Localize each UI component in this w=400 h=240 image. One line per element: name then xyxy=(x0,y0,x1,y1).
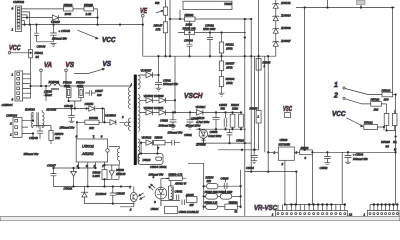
svg-text:A5252: A5252 xyxy=(81,151,94,156)
svg-text:VSCH: VSCH xyxy=(184,91,203,100)
zener ZD5007 xyxy=(272,42,279,47)
diode D5009 xyxy=(109,165,114,179)
svg-text:CN5004: CN5004 xyxy=(2,103,13,107)
ground xyxy=(219,93,225,96)
resistor C5054r xyxy=(230,112,235,129)
wire net y149.8 xyxy=(218,149,259,151)
svg-text:D5010: D5010 xyxy=(143,158,151,162)
svg-text:100: 100 xyxy=(384,98,389,102)
diode VD5014 xyxy=(197,110,242,115)
svg-text:150mmf 25v: 150mmf 25v xyxy=(163,82,178,86)
svg-text:R5023: R5023 xyxy=(64,3,73,7)
wire zener bus xyxy=(275,0,277,56)
svg-text:97k: 97k xyxy=(156,28,161,32)
svg-text:U5004: U5004 xyxy=(151,207,159,211)
wire header bracket left xyxy=(278,205,346,211)
svg-text:150k: 150k xyxy=(226,81,233,85)
wire bus x170 xyxy=(169,0,171,56)
svg-text:ZD5007: ZD5007 xyxy=(280,39,291,43)
switch contact 2 xyxy=(343,97,371,104)
svg-text:R5100: R5100 xyxy=(301,146,309,150)
svg-text:C5051: C5051 xyxy=(175,189,183,193)
svg-text:KA7805R: KA7805R xyxy=(279,143,291,147)
bottom gray strip xyxy=(0,217,400,222)
svg-text:ZD5004: ZD5004 xyxy=(95,192,107,196)
svg-text:R5065: R5065 xyxy=(263,61,271,65)
svg-text:KD5002: KD5002 xyxy=(46,107,56,111)
optocoupler U5004 phototransistor xyxy=(120,187,137,207)
resistor R5028 xyxy=(84,7,94,11)
svg-text:C5035: C5035 xyxy=(116,191,125,195)
svg-text:C5049: C5049 xyxy=(64,104,73,108)
svg-text:R5065: R5065 xyxy=(250,107,258,111)
capacitor C5051 xyxy=(176,195,179,201)
svg-text:200k: 200k xyxy=(76,84,83,88)
resistor R5111 xyxy=(219,33,223,62)
wire U5002 pin8 xyxy=(102,109,104,123)
wire net DC minus rail xyxy=(53,109,105,123)
svg-text:ZD5008: ZD5008 xyxy=(280,14,291,18)
capacitor C5053 xyxy=(44,86,49,101)
svg-text:1N4148: 1N4148 xyxy=(116,172,126,176)
svg-text:10k: 10k xyxy=(55,136,60,140)
svg-text:C5052: C5052 xyxy=(320,166,328,170)
resistor R5096b xyxy=(218,194,241,200)
svg-text:R5090: R5090 xyxy=(185,13,194,17)
zener ZD5009 xyxy=(272,29,279,34)
wire net y112 column xyxy=(213,112,220,129)
svg-text:R5098 2.2k: R5098 2.2k xyxy=(205,201,219,204)
svg-text:C5037: C5037 xyxy=(47,163,56,167)
wire CN5004 pin nets xyxy=(23,74,31,98)
svg-text:ZD5141: ZD5141 xyxy=(280,1,291,5)
resistor R5031 xyxy=(387,110,398,131)
svg-text:R5024: R5024 xyxy=(382,88,391,92)
connector CN5004 xyxy=(15,71,23,101)
wire U5002 pin7 xyxy=(93,135,95,139)
svg-text:+ C5060: + C5060 xyxy=(353,152,364,156)
wire net y168 xyxy=(54,167,96,169)
transformer primary winding xyxy=(128,86,130,109)
svg-text:C5057: C5057 xyxy=(95,89,103,93)
svg-text:C5061: C5061 xyxy=(163,78,171,82)
diode VD5506 xyxy=(110,120,116,125)
wire net VE xyxy=(143,55,276,57)
svg-text:150mmf 10v: 150mmf 10v xyxy=(24,152,39,156)
svg-text:3W: 3W xyxy=(190,203,194,207)
capacitor C5052 xyxy=(324,152,331,164)
capacitor C5046a xyxy=(34,25,39,42)
capacitor C5031 xyxy=(172,140,180,146)
resistor R5104 xyxy=(239,112,244,129)
svg-text:D5009: D5009 xyxy=(116,168,124,172)
svg-text:2: 2 xyxy=(129,207,132,211)
svg-text:2: 2 xyxy=(281,162,284,166)
optocoupler U5004 LED xyxy=(155,179,167,206)
svg-text:C5082: C5082 xyxy=(205,24,214,28)
svg-text:100mmf 25v: 100mmf 25v xyxy=(353,157,368,161)
resistor R5090b xyxy=(166,176,187,180)
svg-text:R5104: R5104 xyxy=(231,103,239,107)
fusible resistor F5054 xyxy=(69,86,84,109)
resistor R5082 xyxy=(204,194,218,200)
svg-text:CN5006: CN5006 xyxy=(6,114,17,118)
fuse F5001 xyxy=(29,50,33,87)
svg-text:CN5002: CN5002 xyxy=(13,0,24,4)
capacitor C5083 xyxy=(187,35,193,57)
node VE terminal xyxy=(142,15,145,57)
svg-text:ZD5009: ZD5009 xyxy=(280,26,291,30)
svg-text:R1: R1 xyxy=(393,140,397,144)
svg-text:2.2k: 2.2k xyxy=(85,12,92,16)
svg-text:220k: 220k xyxy=(185,23,193,27)
svg-text:1mmf: 1mmf xyxy=(45,93,52,97)
svg-text:VD5010 VD5011: VD5010 VD5011 xyxy=(144,106,164,110)
svg-text:VCC: VCC xyxy=(102,37,116,44)
zener ZD5004 xyxy=(81,187,88,204)
diode VD5011 xyxy=(159,110,197,115)
resistor R5090 xyxy=(185,17,196,31)
svg-text:100mmf 35v: 100mmf 35v xyxy=(168,130,183,134)
resistor R5065 xyxy=(256,104,261,150)
svg-text:VE: VE xyxy=(140,6,148,15)
svg-text:VD5506: VD5506 xyxy=(105,113,116,117)
resistor R5024 xyxy=(382,92,396,204)
svg-text:VD5057: VD5057 xyxy=(141,68,152,72)
svg-text:R5022: R5022 xyxy=(371,98,380,102)
svg-text:VCC: VCC xyxy=(9,43,21,52)
svg-text:VD5012: VD5012 xyxy=(142,136,152,140)
svg-text:KD5008: KD5008 xyxy=(25,107,35,111)
transformer primary lower winding xyxy=(129,118,131,131)
svg-text:C5054: C5054 xyxy=(219,103,227,107)
IC U5002 xyxy=(76,139,109,162)
diode VD5010 xyxy=(140,110,159,115)
wire vertical to fuse xyxy=(30,25,32,50)
wire net y19 xyxy=(170,18,251,20)
svg-text:C5053: C5053 xyxy=(44,90,52,94)
diode D5054 xyxy=(89,106,95,111)
wire feed verticals xyxy=(296,152,342,204)
resistor R5021 xyxy=(364,124,384,130)
svg-text:ZD5015: ZD5015 xyxy=(195,142,206,146)
capacitor C5064 xyxy=(251,150,258,164)
transformer box T5005 xyxy=(180,1,232,19)
transformer secondary winding S1 xyxy=(138,75,140,89)
zener ZD5008 xyxy=(272,16,279,21)
wire top right rail xyxy=(296,0,395,150)
choke BD5001 xyxy=(50,84,60,90)
wire net y129.2 xyxy=(196,128,246,130)
resistor R5025 xyxy=(384,114,389,131)
wire VR block left rail xyxy=(188,163,204,210)
svg-text:22k: 22k xyxy=(206,179,212,183)
svg-text:A5165: A5165 xyxy=(185,193,194,197)
svg-text:VSC: VSC xyxy=(283,104,292,113)
switch contact 1 xyxy=(343,87,382,95)
resistor R5054 xyxy=(204,183,241,189)
svg-text:C5129: C5129 xyxy=(197,116,205,120)
wire bus verticals xyxy=(245,0,268,172)
connector header J2 xyxy=(276,211,348,217)
capacitor C5049 xyxy=(68,109,74,123)
svg-text:D5021: D5021 xyxy=(64,186,73,190)
transformer T5006 winding box xyxy=(169,179,174,201)
svg-text:54: 54 xyxy=(36,55,40,59)
wire filter bottom net xyxy=(33,125,51,131)
svg-text:1: 1 xyxy=(334,82,338,89)
zener ZD5015 xyxy=(201,131,206,144)
potentiometer VR5002 xyxy=(225,202,241,210)
inductor box D5010 xyxy=(138,143,163,165)
svg-text:D5054: D5054 xyxy=(85,102,94,106)
resistor R5053 xyxy=(85,120,99,124)
resistor R5165 xyxy=(186,196,197,202)
svg-text:150k: 150k xyxy=(226,47,233,51)
svg-text:U5019: U5019 xyxy=(51,20,60,24)
svg-text:C5046: C5046 xyxy=(37,45,46,49)
svg-text:C5031: C5031 xyxy=(184,133,192,137)
wire CN5006 nets xyxy=(22,112,33,140)
transformer T5001 core xyxy=(134,75,137,166)
svg-text:C5004 C5031: C5004 C5031 xyxy=(150,165,167,169)
node VA terminal xyxy=(40,69,43,86)
svg-text:+ C5040: + C5040 xyxy=(59,29,71,33)
wire VS jumper xyxy=(74,68,104,73)
resistor R5096 xyxy=(219,77,223,94)
transformer aux winding xyxy=(109,147,119,166)
wire net VA rail xyxy=(31,85,131,87)
svg-text:VD5014: VD5014 xyxy=(196,105,206,109)
wire vertical x175 xyxy=(174,56,176,112)
svg-text:150mmf 20v: 150mmf 20v xyxy=(60,126,75,130)
ground xyxy=(51,43,57,46)
svg-text:R5021: R5021 xyxy=(364,120,373,124)
svg-text:R5054: R5054 xyxy=(206,175,214,179)
component top edge part xyxy=(357,1,366,5)
svg-text:R5038: R5038 xyxy=(93,171,101,175)
potentiometer 50k xyxy=(156,0,168,22)
diode D5019 xyxy=(52,15,58,20)
resistor R5057 xyxy=(219,61,223,77)
IC U5006 xyxy=(165,206,178,213)
diode VD5009 xyxy=(159,98,175,103)
wire net y186.5 xyxy=(54,186,132,188)
svg-text:150k 265v: 150k 265v xyxy=(203,27,216,31)
svg-text:C5064: C5064 xyxy=(246,166,254,170)
wire VR block right rail xyxy=(240,170,242,209)
capacitor C5042 xyxy=(37,131,43,139)
svg-text:C5042: C5042 xyxy=(29,136,38,140)
svg-text:C5083: C5083 xyxy=(184,39,193,43)
wire net y165 xyxy=(105,165,120,179)
optocoupler light arrows xyxy=(139,193,145,200)
resistor R5100 xyxy=(300,150,396,155)
capacitor C5060 xyxy=(344,152,351,163)
resistor R5022 xyxy=(371,102,387,114)
fusible resistor F5003 xyxy=(66,86,71,101)
svg-text:3n9: 3n9 xyxy=(97,93,102,97)
wire net y143 xyxy=(197,142,251,144)
wire U5002 pin6 xyxy=(76,122,78,139)
svg-text:47mmf 200v: 47mmf 200v xyxy=(186,123,201,127)
diode VD5012 xyxy=(140,140,154,145)
svg-text:C5023: C5023 xyxy=(236,139,244,143)
wire U5002 bottom pins xyxy=(79,162,105,187)
capacitor C5036 xyxy=(224,180,227,193)
svg-text:1k2: 1k2 xyxy=(374,107,379,111)
svg-text:12: 12 xyxy=(349,212,353,216)
capacitor C5040 xyxy=(37,25,57,42)
svg-text:VS: VS xyxy=(103,61,112,68)
wire VCC pointer xyxy=(78,30,99,39)
svg-text:U5002: U5002 xyxy=(82,144,95,149)
IC U5009 xyxy=(268,147,300,205)
svg-text:U5009: U5009 xyxy=(280,138,288,142)
svg-text:T5005: T5005 xyxy=(224,2,232,6)
wire net y203.6 xyxy=(85,203,135,205)
svg-text:VR5002: VR5002 xyxy=(229,201,239,204)
wire net R5053 row xyxy=(77,121,125,123)
svg-text:C5036: C5036 xyxy=(221,177,229,181)
node VCC terminal xyxy=(8,52,30,55)
capacitor C5082 xyxy=(207,33,213,57)
svg-text:R5082 200k R5096 220k: R5082 200k R5096 220k xyxy=(205,191,233,194)
svg-text:2: 2 xyxy=(9,122,12,126)
node VS terminal xyxy=(65,69,68,86)
svg-text:4.7mf 200v: 4.7mf 200v xyxy=(196,120,210,124)
resistor R5023 xyxy=(64,7,74,11)
svg-text:0.39R: 0.39R xyxy=(93,174,100,178)
terminal VSC xyxy=(285,113,291,118)
resistor R5052 xyxy=(185,30,195,34)
svg-text:220mmf 25v: 220mmf 25v xyxy=(51,37,67,41)
capacitor C5122 xyxy=(224,112,227,129)
line filter KD5008 KD5032 xyxy=(31,110,44,128)
svg-text:50k: 50k xyxy=(155,1,160,5)
svg-text:R5033: R5033 xyxy=(155,136,163,140)
svg-text:100k: 100k xyxy=(65,12,72,16)
transformer secondary winding S2 xyxy=(138,95,140,132)
capacitor C5023 xyxy=(227,129,233,143)
svg-text:2: 2 xyxy=(93,164,96,168)
diode VD5057 xyxy=(140,56,159,82)
transformer secondary winding S3 xyxy=(138,139,140,158)
capacitor C5035 xyxy=(110,187,116,204)
wire header bracket right xyxy=(370,205,397,211)
resistor R5033 xyxy=(154,141,172,145)
svg-text:C5050: C5050 xyxy=(210,130,218,134)
svg-text:VR-VSC: VR-VSC xyxy=(254,205,278,212)
connector CN5006 xyxy=(13,118,22,138)
svg-text:U5006 KA431AZ: U5006 KA431AZ xyxy=(179,210,200,214)
varistor C5050 xyxy=(199,129,208,143)
LED light arrows xyxy=(149,184,155,190)
wire opto nets xyxy=(161,179,180,206)
connector CN5002 xyxy=(16,6,22,32)
capacitor C5028 xyxy=(170,112,177,129)
svg-text:100mmf 35v: 100mmf 35v xyxy=(149,172,164,176)
svg-text:102k: 102k xyxy=(232,107,238,111)
svg-text:4.3mf 200v: 4.3mf 200v xyxy=(208,134,222,138)
resistor R5047 xyxy=(163,22,167,56)
inductor curl xyxy=(125,122,131,126)
resistor R5065a xyxy=(256,59,261,71)
svg-text:54: 54 xyxy=(386,144,390,148)
svg-text:R5052 34k: R5052 34k xyxy=(183,26,197,30)
svg-text:VS: VS xyxy=(66,60,75,69)
svg-text:BD5001: BD5001 xyxy=(49,80,60,84)
wire VCC pointer right xyxy=(347,118,364,127)
capacitor C5061 xyxy=(155,82,162,91)
resistor R5038 xyxy=(102,165,107,187)
zener ZD5141 xyxy=(272,4,279,9)
wire CN5002 pin nets xyxy=(22,9,143,25)
svg-text:2: 2 xyxy=(333,93,338,100)
svg-text:R5090 4.7k: R5090 4.7k xyxy=(169,172,183,176)
zener D5021 xyxy=(70,168,77,187)
svg-text:VCC: VCC xyxy=(332,111,346,118)
capacitor C5057 xyxy=(85,90,96,96)
svg-text:10k: 10k xyxy=(89,126,94,130)
diode VD5008 xyxy=(140,98,159,103)
capacitor C5037 xyxy=(51,168,57,187)
svg-text:R5053: R5053 xyxy=(89,116,98,120)
svg-text:150k: 150k xyxy=(226,66,233,70)
resistor R5098 xyxy=(204,204,225,209)
capacitor C5058 xyxy=(182,200,184,206)
capacitor C5029 xyxy=(187,112,194,129)
svg-text:R5028: R5028 xyxy=(84,3,93,7)
svg-text:A5062 W: A5062 W xyxy=(174,182,187,186)
wire net y32.5 xyxy=(178,32,246,34)
connector header J1 xyxy=(367,211,399,217)
svg-text:VD5008 VD5009: VD5008 VD5009 xyxy=(144,94,165,98)
svg-text:260k: 260k xyxy=(63,84,70,88)
svg-text:VA: VA xyxy=(44,60,52,69)
svg-text:R5025: R5025 xyxy=(381,140,390,144)
svg-text:100mmf 250v: 100mmf 250v xyxy=(159,123,176,127)
resistor R5070 xyxy=(49,131,53,145)
svg-text:C5028: C5028 xyxy=(160,118,168,122)
svg-text:56k: 56k xyxy=(221,107,226,111)
wire frame y171.6 xyxy=(245,172,296,216)
